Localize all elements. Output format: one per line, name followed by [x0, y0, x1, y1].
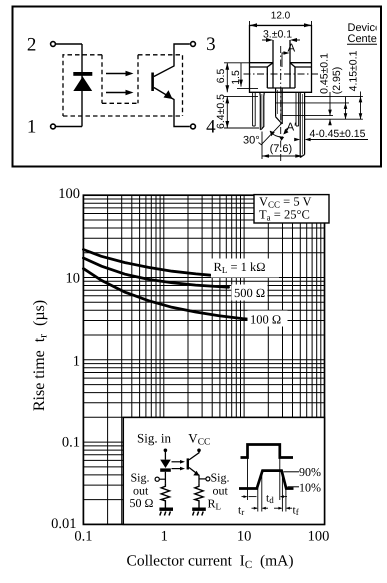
LED D1 cathode bar [73, 72, 92, 76]
resistor 50 ohm [161, 483, 169, 507]
Q1 emitter arrowhead [164, 90, 173, 99]
center lead (sectioned) [276, 88, 283, 124]
svg-text:10: 10 [237, 529, 252, 545]
device center note [348, 22, 382, 45]
svg-text:Rise time tr (µs): Rise time tr (µs) [31, 300, 50, 411]
arrowheads 12.0 [250, 23, 258, 27]
flange top edge [250, 62, 312, 64]
svg-text:A: A [288, 43, 296, 55]
left output terminal [155, 477, 159, 481]
tr tf arrows [252, 507, 293, 509]
30 deg arc [270, 131, 283, 137]
curve label 500 [232, 285, 268, 301]
label Sig out RL [208, 471, 230, 512]
inset transistor base bar [187, 458, 189, 469]
inset LED cathode bar [160, 468, 171, 471]
shared dashed bottom line [63, 115, 183, 117]
arrowheads 0.45 [328, 110, 332, 116]
pin 4 terminal [191, 124, 196, 129]
svg-text:2: 2 [27, 34, 37, 55]
right lead [300, 92, 304, 157]
arrowheads 6.4 [225, 96, 229, 103]
dim line 12.0 with extensions [250, 21, 312, 26]
wire LED to node [164, 472, 166, 484]
wire pin2 to LED anode column [56, 43, 82, 45]
svg-text:Sig. in: Sig. in [137, 430, 171, 445]
A' leader [285, 128, 288, 133]
svg-text:500 Ω: 500 Ω [234, 286, 265, 300]
curve RL=100 [83, 269, 252, 320]
wire input to LED [164, 450, 166, 459]
right output terminal [206, 477, 210, 481]
dashed box around transistor [138, 55, 183, 116]
curve label 100 [248, 311, 288, 327]
device center underline [347, 43, 377, 45]
svg-text:0.45±0.1: 0.45±0.1 [319, 53, 331, 94]
30 deg leader [259, 124, 282, 145]
right output stub [199, 478, 206, 480]
svg-text:1: 1 [27, 117, 37, 138]
svg-text:0.1: 0.1 [62, 435, 80, 451]
resistor RL [195, 483, 203, 507]
svg-text:100 Ω: 100 Ω [250, 313, 281, 327]
svg-text:6.5: 6.5 [215, 69, 227, 84]
6.4 dim [224, 96, 259, 128]
left lead [260, 92, 265, 129]
td arrows [242, 496, 288, 498]
svg-text:90%: 90% [299, 465, 321, 479]
A section leader [282, 53, 286, 67]
svg-text:out: out [213, 484, 229, 498]
wire LED vertical [81, 44, 83, 127]
svg-text:0.01: 0.01 [51, 516, 76, 532]
arrowheads 4.15 [359, 96, 363, 102]
centerline vertical (dash-dot) [280, 46, 282, 162]
1.5 dim [237, 63, 258, 88]
10% reference [288, 486, 300, 488]
outline frame of figure box [13, 7, 382, 167]
arrowheads 3.0 [266, 38, 273, 42]
svg-text:100: 100 [308, 529, 330, 545]
left output stub [159, 478, 165, 480]
6.5 dim [224, 63, 250, 93]
light arrows [172, 460, 186, 464]
arrowheads 4-0.45 [294, 138, 300, 142]
svg-text:100: 100 [58, 186, 80, 202]
Q1 collector lead [154, 44, 190, 77]
arrowheads 30 arc [270, 131, 275, 137]
label Sig. out 50ohm [130, 471, 154, 511]
pin 1 terminal [51, 124, 56, 129]
recess right wall [294, 67, 296, 88]
wire pin1 to LED column [56, 126, 82, 128]
inset box [123, 417, 324, 524]
chamfer right [290, 63, 295, 67]
flange lower edge [250, 66, 312, 68]
boss left wall [272, 40, 274, 88]
emitter arrowhead [193, 471, 199, 476]
chamfer left [267, 63, 273, 67]
svg-text:tr: tr [238, 505, 244, 518]
svg-text:30°: 30° [243, 135, 260, 147]
dashed box around LED [63, 55, 102, 116]
dashed transistor box left side [137, 55, 139, 104]
svg-text:td: td [266, 493, 274, 506]
svg-text:1: 1 [161, 529, 168, 545]
timing verticals [248, 458, 286, 512]
dashed LED box right side [101, 55, 103, 104]
x tick labels [74, 529, 329, 545]
pin 3 terminal [191, 42, 196, 47]
90% reference [284, 471, 300, 473]
arrowhead A leader [284, 51, 290, 55]
2.95 dim vertical [345, 97, 347, 119]
ground left [159, 508, 173, 516]
svg-text:4-0.45±0.15: 4-0.45±0.15 [310, 128, 366, 140]
arrowheads 1.5 [239, 80, 243, 87]
phototransistor Q1 base bar [151, 73, 154, 92]
svg-text:Sig.: Sig. [211, 471, 230, 485]
curve RL=500 [83, 258, 228, 287]
waveform output [239, 471, 294, 489]
recess bottom [267, 87, 295, 89]
light arrow lower [106, 90, 134, 96]
svg-text:tf: tf [293, 505, 299, 518]
svg-text:Sig.: Sig. [131, 471, 150, 485]
curve RL=1k [83, 250, 210, 276]
centerline horizontal (dash-dot) [244, 73, 319, 75]
svg-text:Center: Center [348, 33, 381, 45]
input node dot [164, 449, 168, 453]
conditions box [254, 195, 329, 223]
emitter lead [189, 468, 199, 484]
right refs: 2.95 line [276, 102, 349, 104]
4-0.45 leader [307, 139, 369, 141]
svg-text:10: 10 [66, 271, 81, 287]
svg-text:Collector current IC (mA): Collector current IC (mA) [126, 553, 293, 572]
back row leads [253, 92, 299, 126]
svg-text:12.0: 12.0 [271, 11, 291, 22]
svg-text:6.4±0.5: 6.4±0.5 [215, 94, 227, 129]
plot frame [83, 195, 324, 524]
dashed light channel bottom [102, 102, 138, 104]
arrowheads 6.5 [225, 63, 229, 70]
light arrow upper [106, 71, 134, 77]
svg-text:(2.95): (2.95) [331, 67, 343, 94]
0.45 dim vertical [329, 92, 331, 125]
collector to VCC [189, 451, 199, 460]
boss right wall [289, 40, 291, 88]
svg-text:4.15±0.1: 4.15±0.1 [348, 50, 360, 91]
package body outline [250, 26, 312, 93]
right refs: device center line [305, 118, 363, 120]
VCC node dot [197, 449, 201, 453]
svg-text:10%: 10% [299, 480, 321, 494]
(7.6) dim [262, 132, 302, 160]
4.15 dim vertical [360, 92, 362, 120]
waveform input [241, 445, 294, 458]
y tick labels [51, 186, 80, 532]
arrowheads (7.6) [262, 154, 269, 158]
right refs: cut line [282, 115, 333, 117]
curve label RL=1k [211, 259, 279, 278]
left lead tip [259, 129, 262, 131]
svg-text:50 Ω: 50 Ω [130, 496, 154, 510]
right refs: shoulder line [305, 95, 363, 97]
Q1 emitter lead [154, 88, 190, 127]
arrowheads 2.95 [344, 103, 348, 109]
LED D1 triangle [73, 77, 92, 92]
svg-text:1: 1 [73, 353, 80, 369]
svg-text:0.1: 0.1 [74, 529, 92, 545]
svg-text:RL = 1 kΩ: RL = 1 kΩ [214, 260, 266, 275]
pin 2 terminal [51, 42, 56, 47]
ground right [192, 508, 206, 516]
svg-text:Ta = 25°C: Ta = 25°C [259, 208, 310, 223]
inset LED triangle [160, 460, 171, 468]
svg-text:3: 3 [206, 34, 216, 55]
lead hatch lines [262, 90, 302, 155]
arrowhead A' leader [283, 129, 288, 135]
dim line 3.0 [262, 39, 300, 41]
recess left wall [266, 67, 268, 88]
